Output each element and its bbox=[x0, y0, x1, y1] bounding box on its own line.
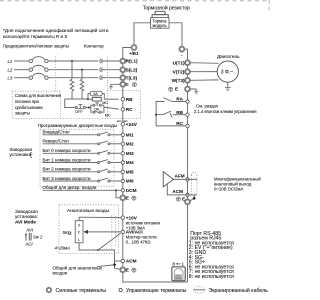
svg-text:входов: входов bbox=[53, 270, 68, 275]
terminal AVI/ACI bbox=[121, 230, 124, 233]
svg-text:E: E bbox=[126, 268, 129, 273]
terminal DCM bbox=[121, 189, 124, 192]
node bus junction bbox=[87, 98, 89, 100]
contactor contact L3 bbox=[100, 76, 120, 80]
svg-text:ACM: ACM bbox=[172, 189, 183, 194]
fuse/breaker L3 bbox=[14, 73, 98, 79]
terminal R(L1) bbox=[120, 59, 125, 64]
svg-text:AVI Mode: AVI Mode bbox=[15, 219, 36, 224]
OFF pushbutton (NC) bbox=[75, 105, 85, 109]
node ON branch bbox=[88, 107, 90, 109]
terminal +10V bbox=[121, 216, 124, 219]
svg-text:AFM: AFM bbox=[175, 174, 185, 179]
svg-text:L2: L2 bbox=[8, 68, 13, 73]
svg-text:Бит 2 номера скорости: Бит 2 номера скорости bbox=[43, 167, 91, 172]
svg-text:E: E bbox=[182, 196, 185, 201]
svg-text:MC: MC bbox=[105, 114, 111, 118]
junction L2 tap bbox=[81, 69, 83, 71]
svg-text:MI1: MI1 bbox=[126, 133, 134, 138]
input row MI4 speed bit 1 bbox=[43, 157, 122, 163]
svg-text:W(T3): W(T3) bbox=[172, 78, 185, 83]
wire +B1 to strip bbox=[123, 48, 132, 62]
potentiometer 5K bbox=[75, 221, 83, 243]
svg-text:L1: L1 bbox=[8, 59, 13, 64]
svg-text:См. раздел: См. раздел bbox=[196, 104, 219, 109]
wire to ACM bbox=[115, 260, 122, 262]
svg-text:3 Ф.~: 3 Ф.~ bbox=[221, 69, 233, 75]
input row MI3 speed bit 0 bbox=[43, 148, 122, 154]
terminal T(L3) bbox=[120, 75, 125, 80]
svg-text:питания при: питания при bbox=[15, 99, 39, 104]
svg-text:MC: MC bbox=[102, 101, 108, 105]
RS-485 port text bbox=[189, 231, 234, 280]
terminal E left bbox=[120, 82, 125, 87]
input row MI5 speed bit 2 bbox=[43, 167, 122, 173]
pot wiper arrow bbox=[83, 230, 88, 234]
svg-text:S(L2): S(L2) bbox=[126, 67, 138, 72]
svg-text:Схема для выключения: Схема для выключения bbox=[15, 93, 61, 98]
pointer line common label bbox=[97, 265, 113, 267]
svg-text:2.1.4 Монтаж клемм управления: 2.1.4 Монтаж клемм управления bbox=[194, 109, 257, 114]
ground stub right of E bbox=[190, 89, 198, 94]
svg-text:+/B1: +/B1 bbox=[129, 51, 139, 56]
svg-text:+24V: +24V bbox=[126, 122, 138, 127]
PE symbol at E right bbox=[169, 87, 173, 91]
terminal MI4 bbox=[121, 161, 124, 164]
svg-text:L3: L3 bbox=[8, 76, 13, 81]
wire bus to RB bbox=[65, 98, 88, 100]
terminal ACM right bbox=[186, 193, 189, 196]
svg-text:Ω: Ω bbox=[68, 231, 72, 236]
svg-text:E: E bbox=[126, 82, 129, 87]
svg-text:модуль: модуль bbox=[153, 23, 168, 28]
svg-text:MI5: MI5 bbox=[126, 170, 134, 175]
legend control terminal bbox=[119, 288, 122, 291]
svg-text:Бит 0 номера скорости: Бит 0 номера скорости bbox=[43, 148, 91, 153]
motor M1 bbox=[217, 61, 238, 82]
svg-text:3: 3 bbox=[78, 224, 80, 228]
page top dashed border bbox=[0, 0, 270, 2]
svg-text:MI6: MI6 bbox=[126, 179, 134, 184]
svg-text:Силовые терминалы: Силовые терминалы bbox=[56, 288, 107, 294]
terminal MI2 bbox=[121, 142, 124, 145]
svg-text:Тормозной резистор: Тормозной резистор bbox=[143, 4, 190, 11]
svg-text:8: не используется: 8: не используется bbox=[189, 274, 234, 280]
terminal RB right bbox=[186, 113, 189, 116]
svg-text:1: 1 bbox=[78, 238, 80, 242]
wire minus to right strip bbox=[184, 49, 187, 60]
fuse/breaker L2 bbox=[14, 65, 98, 71]
wire down to OFF row bbox=[65, 99, 75, 108]
svg-text:SA: SA bbox=[93, 92, 98, 96]
analog meter amp triangle bbox=[163, 172, 173, 187]
svg-text:RA: RA bbox=[176, 97, 183, 102]
svg-text:0...10В 47КΩ: 0...10В 47КΩ bbox=[126, 240, 151, 245]
terminal U(T1) bbox=[185, 60, 190, 65]
terminal MI1 bbox=[121, 133, 124, 136]
svg-text:Управляющие терминалы: Управляющие терминалы bbox=[126, 288, 187, 294]
node relay common bbox=[155, 114, 157, 116]
node common junction bbox=[115, 189, 117, 191]
contactor contact L1 bbox=[100, 59, 120, 63]
input row MI2 Reverse/Stop bbox=[43, 139, 122, 145]
relay contact RB (NC) bbox=[156, 111, 186, 117]
svg-text:E: E bbox=[175, 87, 178, 92]
terminal E mid bbox=[120, 195, 125, 200]
svg-text:Бит 3 номера скорости: Бит 3 номера скорости bbox=[43, 176, 91, 181]
junction L1 tap bbox=[71, 60, 73, 62]
terminal MI5 bbox=[121, 170, 124, 173]
svg-text:Двигатель: Двигатель bbox=[217, 54, 240, 60]
svg-text:Экранированный кабель: Экранированный кабель bbox=[209, 287, 269, 294]
svg-text:RC: RC bbox=[126, 107, 133, 112]
terminal AFM bbox=[186, 178, 189, 181]
terminal MI3 bbox=[121, 152, 124, 155]
diagonal 4-20mA wire to AVI bbox=[98, 233, 121, 250]
shield drain to E bbox=[190, 195, 195, 201]
resistor R2 (L2 dropper) bbox=[80, 70, 84, 99]
wire OFF to ON node bbox=[85, 107, 90, 109]
terminal RC right bbox=[186, 124, 189, 127]
terminal RC bbox=[121, 108, 124, 111]
svg-text:срабатывании: срабатывании bbox=[15, 105, 43, 110]
svg-text:MI3: MI3 bbox=[126, 151, 134, 156]
dotted bottom shared line bbox=[61, 118, 141, 120]
terminal E bottom bbox=[120, 267, 125, 272]
pot top wire to +10V bbox=[79, 217, 121, 221]
wire ACM from triangle bbox=[167, 184, 197, 195]
svg-text:Общий для дискр. входов: Общий для дискр. входов bbox=[43, 184, 97, 190]
svg-text:Вперед/Стоп: Вперед/Стоп bbox=[43, 130, 70, 135]
contactor contact L2 bbox=[100, 68, 120, 72]
input row MI6 speed bit 3 bbox=[43, 176, 122, 182]
svg-text:RC: RC bbox=[176, 121, 183, 126]
protection note dotted box bbox=[12, 91, 60, 118]
PE symbol at E bottom bbox=[132, 268, 136, 272]
svg-text:Программируемые дискретные вхо: Программируемые дискретные входы bbox=[38, 123, 117, 128]
dotted separator contactor/drive bbox=[106, 57, 108, 119]
svg-text:T(L3): T(L3) bbox=[126, 75, 138, 80]
terminal MI6 bbox=[121, 179, 124, 182]
wire RC common bbox=[156, 125, 186, 127]
svg-text:2: 2 bbox=[78, 231, 80, 235]
brake module box bbox=[151, 18, 169, 29]
svg-text:защиты: защиты bbox=[15, 111, 30, 116]
svg-text:4~20мА: 4~20мА bbox=[55, 245, 71, 250]
motor ground bbox=[225, 82, 231, 90]
svg-text:Реверс/Стоп: Реверс/Стоп bbox=[43, 139, 70, 144]
svg-text:ACM: ACM bbox=[126, 259, 137, 264]
svg-text:E: E bbox=[126, 196, 129, 201]
terminal S(L2) bbox=[120, 67, 125, 72]
wire AFM bbox=[174, 178, 197, 180]
terminal V(T2) bbox=[185, 69, 190, 74]
terminal E right bbox=[185, 87, 190, 92]
digital inputs dashed box bbox=[40, 129, 114, 186]
RJ45 connector J1 bbox=[172, 267, 185, 281]
wire module to minus bbox=[169, 23, 182, 47]
svg-text:V(T2): V(T2) bbox=[173, 69, 185, 74]
svg-text:OFF: OFF bbox=[75, 110, 83, 114]
svg-text:Бит 1 номера скорости: Бит 1 номера скорости bbox=[43, 157, 91, 162]
terminal W(T3) bbox=[185, 78, 190, 83]
PE symbol at E left bbox=[132, 83, 136, 87]
ON pushbutton (NO) with MC holding contact loop bbox=[91, 103, 104, 113]
svg-text:ACI: ACI bbox=[25, 242, 34, 247]
shielded cable capsule analog bbox=[112, 215, 116, 250]
shielded cable capsule AFM bbox=[191, 172, 197, 195]
wire common to E mid bbox=[116, 190, 120, 198]
terminal +/B1 bbox=[132, 45, 137, 50]
svg-text:используйте терминалы R и S: используйте терминалы R и S bbox=[3, 33, 67, 39]
svg-text:R(L1): R(L1) bbox=[126, 59, 138, 64]
resistor R1 (L1 dropper) bbox=[70, 61, 74, 99]
node 4-20 tap bbox=[97, 249, 99, 251]
surge absorber SA loop bbox=[88, 91, 104, 99]
svg-text:Sw 2: Sw 2 bbox=[33, 235, 43, 240]
left strip vertical line bbox=[123, 59, 188, 282]
ground stub left of E bbox=[109, 84, 121, 89]
svg-text:0~10В DC/2мА: 0~10В DC/2мА bbox=[214, 187, 243, 192]
svg-text:Контактор: Контактор bbox=[84, 44, 104, 49]
svg-text:RB: RB bbox=[126, 97, 133, 102]
motor wires U V W bbox=[190, 62, 219, 65]
wire module to +/B1 bbox=[134, 23, 151, 45]
svg-text:AVI: AVI bbox=[26, 228, 34, 233]
svg-text:*Для подключения однофазной пи: *Для подключения однофазной питающей сет… bbox=[3, 27, 109, 34]
svg-text:U(T1): U(T1) bbox=[173, 60, 185, 65]
brake resistor BR bbox=[152, 11, 168, 18]
PE symbol at E mid bbox=[132, 196, 136, 200]
terminal E right bottom bbox=[185, 199, 190, 204]
wire SA to RB terminal bbox=[104, 98, 119, 100]
right strip vertical line bbox=[187, 60, 189, 282]
svg-text:ON: ON bbox=[94, 108, 100, 112]
terminal RA bbox=[186, 100, 189, 103]
terminal ACM bbox=[121, 259, 124, 262]
terminal +24V bbox=[121, 123, 124, 126]
node shield drain bbox=[193, 197, 196, 200]
legend shielded cable icon bbox=[194, 286, 205, 293]
svg-text:Аналоговые входы: Аналоговые входы bbox=[67, 208, 110, 214]
PE symbol at E right bottom bbox=[176, 197, 180, 201]
wire ON loop to RC terminal bbox=[104, 108, 119, 110]
legend power terminal bbox=[47, 288, 51, 292]
RB/RC dotted box bbox=[107, 91, 140, 119]
fuse/breaker L1 bbox=[14, 57, 98, 63]
node analog common bbox=[113, 263, 116, 266]
relay contact RA (NO) bbox=[156, 98, 186, 126]
pot bottom wire bbox=[79, 243, 120, 270]
dotted separator fuse/contactor bbox=[55, 57, 57, 92]
svg-text:DCM: DCM bbox=[126, 188, 137, 193]
terminal RB bbox=[121, 98, 124, 101]
analog inputs dashed box bbox=[59, 205, 119, 254]
terminal minus bbox=[180, 47, 185, 52]
svg-text:Предохранители/Автомат защиты: Предохранители/Автомат защиты bbox=[3, 44, 69, 49]
input row MI1 Forward/Stop bbox=[43, 130, 122, 136]
contactor coil MC bbox=[92, 97, 101, 101]
svg-text:MI4: MI4 bbox=[126, 160, 134, 165]
svg-text:RB: RB bbox=[176, 110, 183, 115]
svg-text:MI2: MI2 bbox=[126, 142, 134, 147]
